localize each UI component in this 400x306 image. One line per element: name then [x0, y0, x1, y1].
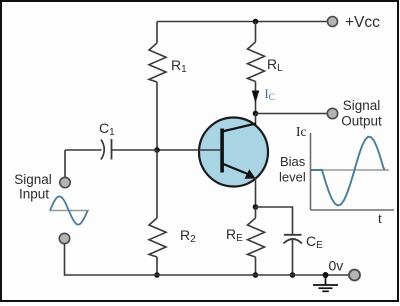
transistor Q1 emitter arrowhead [245, 169, 256, 179]
transistor Q1 base bar [220, 129, 224, 173]
node: CE / ground rail [290, 272, 296, 278]
svg-text:CE: CE [306, 233, 323, 251]
svg-text:C1: C1 [99, 120, 115, 138]
node: emitter junction [253, 204, 259, 210]
wire: top +Vcc rail [157, 21, 327, 23]
wire: bottom 0v rail [65, 274, 349, 276]
wire: RL bottom to collector node [255, 82, 257, 114]
terminal signal input bottom [59, 233, 69, 243]
wire: R2 bottom to rail [156, 257, 158, 275]
capacitor CE curved plate [284, 239, 303, 244]
capacitor C1 curved plate [101, 140, 104, 160]
svg-text:RE: RE [226, 226, 243, 244]
terminal 0v [349, 270, 360, 281]
svg-text:0v: 0v [329, 258, 344, 274]
wire: base wire from node to transistor [157, 149, 221, 151]
wire: input terminal up [64, 150, 66, 178]
svg-text:IC: IC [265, 87, 276, 103]
svg-text:Bias: Bias [280, 154, 306, 169]
node: collector / output junction [253, 111, 259, 117]
svg-text:+Vcc: +Vcc [345, 14, 380, 31]
source baseline [50, 210, 90, 212]
node: R2 / ground rail [154, 272, 160, 278]
graph x-axis [311, 209, 395, 211]
terminal signal input top [60, 177, 70, 187]
svg-text:level: level [279, 170, 306, 185]
resistor RL [248, 42, 265, 82]
wire: emitter out of transistor down [255, 178, 257, 207]
wire: C1 right to base node [112, 149, 158, 151]
arrow Ic [252, 91, 260, 104]
svg-text:t: t [378, 211, 382, 227]
transistor Q1 emitter stroke [222, 164, 249, 175]
svg-text:Signal: Signal [14, 172, 52, 187]
ground symbol [313, 275, 338, 291]
svg-text:R2: R2 [180, 227, 196, 245]
node: base / divider junction [154, 147, 160, 153]
transistor Q1 collector stroke [222, 124, 256, 132]
capacitor CE top plate [284, 234, 302, 236]
wire: RE bottom to rail [255, 257, 257, 275]
wire: R2 top from base node [156, 150, 158, 218]
wire: collector node to output terminal [256, 113, 328, 115]
svg-text:R1: R1 [171, 57, 187, 75]
resistor R1 [149, 43, 166, 82]
node: top rail / RL junction [253, 19, 259, 25]
svg-text:Output: Output [341, 114, 382, 129]
wire: R1 bottom to base node [156, 82, 158, 150]
svg-text:Input: Input [19, 187, 49, 202]
wire: collector node into transistor [255, 114, 257, 128]
wire: input bottom terminal to rail [64, 244, 66, 276]
terminal Signal Output [327, 108, 337, 118]
wire: RE top from emitter node [255, 207, 257, 218]
svg-text:Signal: Signal [343, 98, 381, 113]
node: ground tap [323, 272, 329, 278]
source sine wave [50, 196, 88, 224]
node: RE / ground rail [253, 272, 259, 278]
resistor RE [248, 218, 265, 257]
resistor R2 [149, 218, 166, 257]
wire: emitter node to CE [256, 207, 293, 235]
terminal +Vcc [328, 17, 338, 27]
wire: rail to R1 top [156, 22, 158, 44]
transistor Q1 body [199, 118, 268, 187]
graph output sine [311, 137, 385, 206]
svg-text:RL: RL [267, 56, 283, 74]
capacitor C1 straight plate [111, 139, 113, 160]
wire: CE bottom to rail [292, 240, 294, 275]
wire: input to C1 left [65, 149, 102, 151]
svg-text:Ic: Ic [296, 124, 307, 139]
wire: rail to RL top [255, 22, 257, 43]
graph bias line [311, 169, 389, 171]
graph y-axis [310, 133, 312, 210]
